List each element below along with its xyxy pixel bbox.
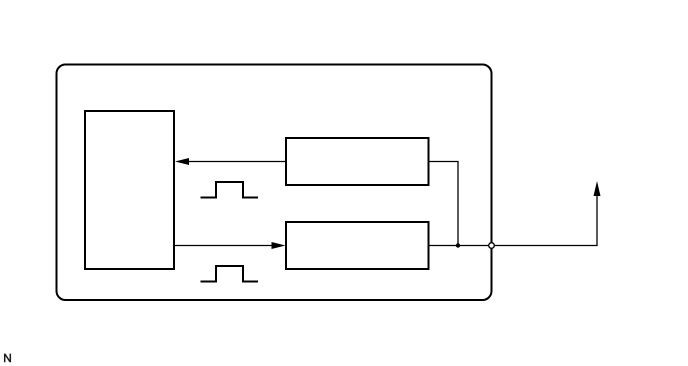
block: upper signal stage: [286, 138, 429, 185]
wire: output lead outside enclosure: [492, 195, 598, 246]
arrowhead into lower stage: [272, 242, 286, 249]
wire: lower stage output to terminal: [429, 245, 492, 247]
arrowhead: output up: [594, 181, 601, 196]
wire: microcontroller to lower stage: [174, 245, 272, 247]
junction node: [456, 243, 460, 247]
pulse signal symbol (lower): [201, 266, 259, 282]
arrowhead into microcontroller: [175, 158, 189, 165]
block: microcontroller: [85, 111, 174, 269]
label N: [5, 354, 11, 363]
pulse signal symbol (upper): [201, 182, 259, 198]
block: lower output stage: [286, 222, 429, 269]
wire: upper stage output down to node: [429, 162, 459, 246]
control-unit enclosure boundary: [57, 65, 492, 301]
wire: upper stage to microcontroller: [188, 161, 286, 163]
terminal circle on enclosure border: [489, 243, 495, 249]
